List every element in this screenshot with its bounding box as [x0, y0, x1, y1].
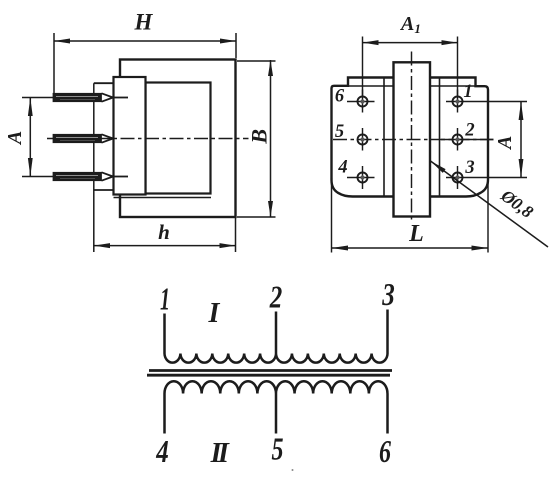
dimension A1 — [363, 13, 458, 96]
top view: lamination stack edges — [384, 79, 440, 196]
schematic pin label 6 — [379, 433, 391, 469]
terminal 5 — [335, 122, 368, 150]
dimension L — [332, 175, 489, 253]
top view: bracket inner edge under tab — [348, 85, 476, 87]
winding II (secondary) — [165, 381, 388, 433]
svg-text:5: 5 — [272, 431, 284, 467]
dimension H — [54, 10, 236, 94]
svg-text:2: 2 — [464, 121, 474, 141]
terminal 2 — [441, 121, 494, 151]
schematic pin label 4 — [155, 433, 168, 469]
wire lead 5 — [275, 394, 278, 434]
dimension h — [94, 218, 236, 252]
transformer side view: bobbin flange — [114, 77, 146, 195]
svg-text:6: 6 — [379, 433, 391, 469]
schematic pin label 2 — [269, 278, 282, 314]
transformer side view: core window inner rectangle — [146, 83, 211, 194]
svg-text:1: 1 — [463, 82, 472, 102]
top view: vertical center line — [411, 52, 413, 223]
wire lead 6 — [386, 394, 389, 434]
dimension A (pin spacing, side view) — [4, 98, 53, 177]
svg-text:h: h — [158, 220, 170, 244]
pin 3 (side view lead) — [53, 172, 128, 180]
svg-text:L: L — [408, 221, 424, 247]
dimension B — [237, 60, 276, 217]
svg-text:4: 4 — [337, 158, 347, 178]
dimension A (terminal spacing, top view) — [494, 102, 523, 178]
svg-text:H: H — [134, 10, 154, 35]
svg-text:I: I — [208, 298, 221, 329]
svg-text:1: 1 — [160, 280, 170, 316]
svg-text:B: B — [246, 129, 271, 145]
svg-text:2: 2 — [269, 278, 282, 314]
schematic pin label 1 — [160, 280, 170, 316]
leader callout diameter 0,8 — [431, 161, 549, 247]
terminal 3 — [446, 158, 527, 189]
pin 1 (side view lead) — [53, 93, 128, 101]
svg-text:A: A — [4, 131, 26, 146]
svg-text:A: A — [494, 136, 516, 151]
core line upper — [149, 369, 392, 372]
svg-text:6: 6 — [335, 87, 345, 107]
winding label I — [208, 298, 221, 329]
top view: core central limb — [394, 62, 431, 216]
svg-text:3: 3 — [464, 158, 474, 178]
winding I (primary) — [165, 314, 388, 363]
wire lead 3 — [386, 310, 389, 354]
schematic pin label 5 — [272, 431, 284, 467]
pin 2 (side view lead) — [53, 134, 113, 142]
terminal 4 — [337, 158, 374, 189]
core line lower — [147, 374, 390, 377]
schematic pin label 3 — [381, 276, 394, 312]
svg-text:4: 4 — [155, 433, 168, 469]
svg-text:3: 3 — [381, 276, 394, 312]
top view: horizontal center line — [333, 139, 494, 141]
transformer side view: bobbin lower flange line — [114, 197, 212, 199]
center line (side view axis) — [47, 138, 249, 140]
svg-text:5: 5 — [335, 122, 344, 142]
transformer top view: body outline — [332, 78, 489, 197]
stray scan dot — [292, 469, 294, 471]
transformer side view: core outer outline — [120, 60, 236, 218]
terminal 1 — [446, 82, 527, 112]
winding label II — [210, 438, 230, 469]
terminal 6 — [335, 87, 375, 113]
transformer side view: mounting plate edge — [94, 83, 114, 252]
wire lead 2 — [275, 312, 278, 354]
